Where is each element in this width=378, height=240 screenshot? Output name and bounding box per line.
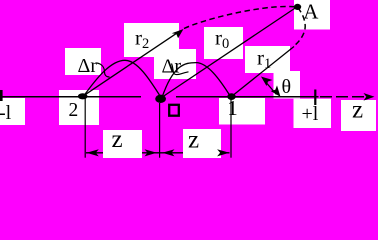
svg-text:z: z <box>352 97 363 124</box>
svg-text:Δr: Δr <box>162 56 182 78</box>
svg-text:z: z <box>188 127 199 154</box>
svg-text:A: A <box>303 0 319 24</box>
svg-text:2: 2 <box>69 100 79 121</box>
svg-text:1: 1 <box>227 96 238 120</box>
svg-text:Δr: Δr <box>78 55 98 77</box>
svg-text:-l: -l <box>0 102 12 124</box>
svg-text:z: z <box>112 126 123 153</box>
svg-text:+l: +l <box>302 103 319 125</box>
svg-text:θ: θ <box>282 76 292 98</box>
